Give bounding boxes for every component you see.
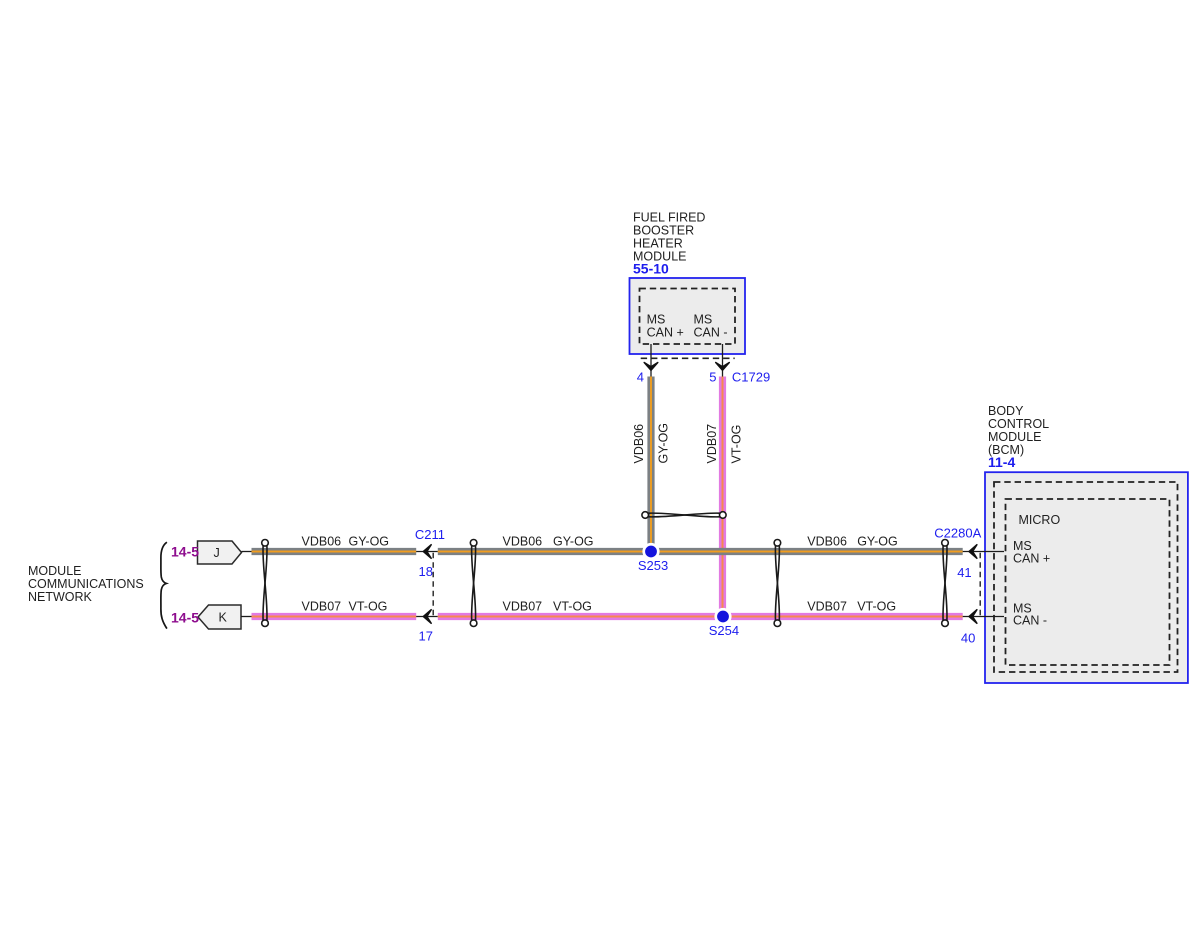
- svg-text:J: J: [214, 546, 220, 560]
- svg-text:VDB06: VDB06: [302, 535, 342, 549]
- wire VDB07 VT-OG bus segment C211 to BCM: [438, 613, 963, 620]
- arrow into pin 5: [716, 363, 730, 371]
- svg-text:40: 40: [961, 631, 975, 646]
- svg-text:CONTROL: CONTROL: [988, 417, 1049, 431]
- svg-text:CAN +: CAN +: [647, 326, 684, 340]
- network tag K: [198, 605, 241, 629]
- arrow into pin 41: [969, 545, 977, 559]
- BCM header: BODY CONTROL MODULE (BCM) 11-4: [988, 404, 1049, 470]
- wire VDB06 GY-OG bus segment J to C211: [252, 548, 417, 555]
- twisted pair symbol (horizontal, between vertical wires): [642, 512, 726, 519]
- svg-text:VDB06: VDB06: [807, 535, 847, 549]
- twisted pair symbol near tag J/K: [262, 540, 269, 627]
- BCM pin label MS CAN -: [1013, 602, 1047, 628]
- svg-text:55-10: 55-10: [633, 261, 669, 277]
- svg-text:GY-OG: GY-OG: [857, 535, 898, 549]
- svg-text:MS: MS: [647, 313, 666, 327]
- svg-text:GY-OG: GY-OG: [349, 535, 390, 549]
- svg-text:5: 5: [709, 370, 716, 385]
- BCM pin lead MS CAN -: [963, 616, 1004, 618]
- svg-text:41: 41: [957, 565, 971, 580]
- svg-text:VT-OG: VT-OG: [553, 600, 592, 614]
- svg-text:BODY: BODY: [988, 404, 1024, 418]
- svg-text:VT-OG: VT-OG: [730, 425, 744, 464]
- svg-text:C1729: C1729: [732, 370, 770, 385]
- svg-text:VDB06: VDB06: [632, 424, 646, 464]
- arrow into pin 40: [969, 610, 977, 624]
- svg-text:S254: S254: [709, 623, 739, 638]
- twisted pair symbol near BCM: [942, 540, 949, 627]
- splice S253: [638, 543, 668, 573]
- wire gap line at C211 bottom: [416, 616, 438, 618]
- label VDB06 GY-OG (right segment): [807, 535, 897, 549]
- svg-text:VDB06: VDB06: [503, 535, 543, 549]
- svg-text:CAN +: CAN +: [1013, 552, 1050, 566]
- svg-text:GY-OG: GY-OG: [553, 535, 594, 549]
- svg-text:NETWORK: NETWORK: [28, 590, 93, 604]
- twisted pair symbol after C211: [470, 540, 477, 627]
- module U1 box: fuel fired booster heater module: [630, 278, 746, 354]
- svg-text:VT-OG: VT-OG: [857, 600, 896, 614]
- connector C2280A dashed line: [979, 553, 981, 616]
- svg-text:MODULE: MODULE: [28, 564, 81, 578]
- svg-text:COMMUNICATIONS: COMMUNICATIONS: [28, 577, 144, 591]
- module U1 pin label MS CAN +: [647, 313, 684, 340]
- wire VDB06 GY-OG vertical segment: [647, 377, 654, 552]
- svg-text:S253: S253: [638, 558, 668, 573]
- network tag J: [198, 541, 242, 564]
- label VDB07 VT-OG (right segment): [807, 600, 896, 614]
- module U1 header: FUEL FIRED BOOSTER HEATER MODULE 55-10: [633, 211, 705, 277]
- twisted pair symbol right of S254: [774, 540, 781, 627]
- wire tail from tag J: [242, 551, 253, 553]
- svg-text:VDB07: VDB07: [302, 600, 342, 614]
- svg-text:MICRO: MICRO: [1019, 513, 1061, 527]
- BCM inner dashed block MICRO: [1006, 499, 1170, 665]
- svg-text:4: 4: [637, 370, 644, 385]
- svg-text:VDB07: VDB07: [807, 600, 847, 614]
- connector C211 dashed line: [432, 553, 434, 616]
- svg-text:MODULE: MODULE: [988, 430, 1041, 444]
- connector C1729 dashed line: [641, 357, 735, 359]
- arrow into pin 4: [644, 363, 658, 371]
- svg-text:C211: C211: [415, 527, 445, 542]
- BCM outer dashed block: [994, 482, 1178, 672]
- BCM box: [985, 472, 1188, 683]
- svg-text:14-5: 14-5: [171, 544, 199, 560]
- wire stub from MS CAN + pin: [650, 344, 652, 377]
- wire gap line at C211 top: [416, 551, 438, 553]
- svg-text:K: K: [219, 611, 228, 625]
- svg-text:VDB07: VDB07: [705, 424, 719, 464]
- svg-text:17: 17: [419, 629, 433, 644]
- svg-text:CAN -: CAN -: [1013, 614, 1047, 628]
- label VDB07 VT-OG (middle segment): [503, 600, 592, 614]
- svg-text:14-5: 14-5: [171, 610, 199, 626]
- wire VDB07 VT-OG vertical segment: [719, 377, 726, 617]
- splice S254: [709, 608, 739, 638]
- svg-text:FUEL FIRED: FUEL FIRED: [633, 211, 705, 225]
- wire stub from MS CAN - pin: [722, 344, 724, 377]
- svg-text:HEATER: HEATER: [633, 237, 683, 251]
- svg-text:VDB07: VDB07: [503, 600, 543, 614]
- svg-text:18: 18: [419, 564, 433, 579]
- module U1 pin label MS CAN -: [694, 313, 728, 340]
- wire VDB06 GY-OG bus segment C211 to BCM: [438, 548, 963, 555]
- label VDB06 GY-OG (middle segment): [503, 535, 594, 549]
- wire tail from tag K: [241, 616, 252, 618]
- svg-text:BOOSTER: BOOSTER: [633, 224, 694, 238]
- arrow into pin 18: [423, 545, 431, 559]
- BCM pin label MS CAN +: [1013, 539, 1050, 566]
- label MODULE COMMUNICATIONS NETWORK: [28, 564, 144, 604]
- svg-text:C2280A: C2280A: [934, 525, 981, 540]
- BCM pin lead MS CAN +: [963, 551, 1004, 553]
- module U1 inner dashed connector block: [640, 289, 736, 345]
- svg-text:GY-OG: GY-OG: [657, 423, 671, 464]
- arrow into pin 17: [423, 610, 431, 624]
- svg-text:11-4: 11-4: [988, 454, 1015, 470]
- wire VDB07 VT-OG bus segment K to C211: [252, 613, 417, 620]
- label VDB07 VT-OG (left segment): [302, 600, 388, 614]
- svg-text:MS: MS: [694, 313, 713, 327]
- svg-text:CAN -: CAN -: [694, 326, 728, 340]
- label VDB06 GY-OG (left segment): [302, 535, 390, 549]
- brace for module communications network: [161, 542, 167, 628]
- svg-text:VT-OG: VT-OG: [349, 600, 388, 614]
